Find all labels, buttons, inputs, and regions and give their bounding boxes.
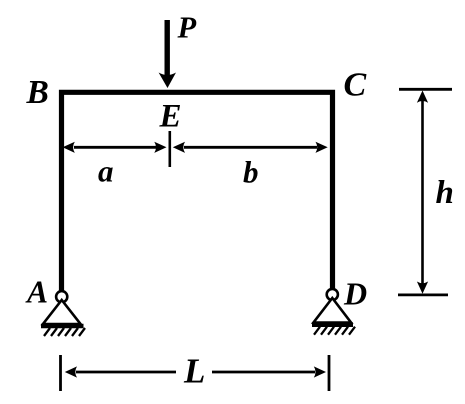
svg-text:a: a (98, 154, 114, 189)
svg-text:C: C (344, 67, 367, 104)
svg-text:b: b (243, 155, 259, 190)
svg-text:E: E (159, 99, 182, 135)
svg-text:A: A (25, 275, 48, 310)
svg-text:h: h (436, 175, 454, 211)
svg-text:D: D (343, 276, 367, 312)
svg-text:L: L (183, 352, 205, 391)
svg-text:P: P (177, 11, 197, 45)
svg-text:B: B (26, 74, 49, 111)
